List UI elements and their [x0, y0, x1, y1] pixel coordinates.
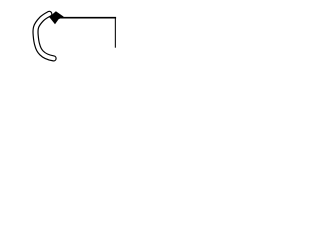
current-probe clamp hook: [36, 14, 54, 59]
probe arrowhead: [49, 11, 64, 24]
wire segment vertical: [114, 17, 116, 48]
wire segment horizontal: [60, 17, 116, 19]
